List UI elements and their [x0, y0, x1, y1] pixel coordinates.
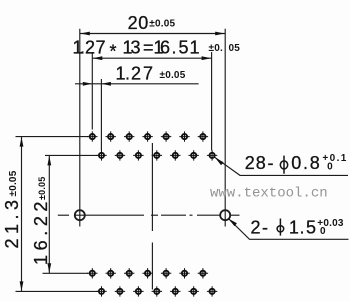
svg-text:±0.05: ±0.05 [8, 170, 19, 196]
svg-text:05: 05 [229, 43, 241, 54]
svg-text:www.textool.cn: www.textool.cn [210, 186, 328, 202]
svg-text:20: 20 [128, 13, 149, 33]
svg-text:±0.: ±0. [209, 43, 223, 54]
svg-text:0.8: 0.8 [291, 153, 320, 173]
svg-text:28-: 28- [245, 153, 274, 173]
svg-text:16.22: 16.22 [31, 197, 51, 265]
svg-text:1.27: 1.27 [116, 64, 154, 84]
svg-text:13=16.51: 13=16.51 [123, 38, 200, 58]
svg-text:*: * [110, 42, 117, 62]
svg-text:0: 0 [327, 162, 333, 173]
svg-text:±0.05: ±0.05 [160, 70, 186, 81]
svg-text:2-: 2- [251, 218, 269, 238]
svg-text:±0.05: ±0.05 [37, 177, 47, 200]
svg-text:21.3: 21.3 [2, 195, 22, 248]
svg-text:±0.05: ±0.05 [149, 19, 175, 30]
svg-text:1.27: 1.27 [73, 38, 106, 58]
svg-text:0: 0 [320, 226, 326, 237]
svg-text:1.5: 1.5 [289, 218, 316, 238]
